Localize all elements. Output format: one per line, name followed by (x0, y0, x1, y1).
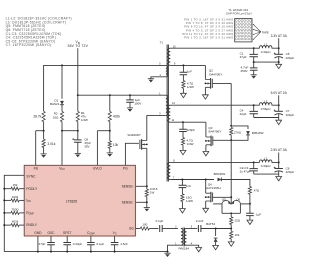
inductor L3 0.56&#181;H output filter 5V (240, 91, 295, 118)
resistor 28.7k (33, 111, 45, 130)
wire FB pin (35, 131, 37, 166)
ground (203, 208, 209, 212)
transistor Q6 FMMT718 (230, 198, 250, 214)
svg-text:1nF: 1nF (187, 69, 192, 73)
resistor 15&#937; 1/4W snubber (181, 194, 193, 209)
svg-text:FB: FB (34, 167, 38, 171)
resistor 750&#937; (3, 207, 24, 214)
wire UVLO pin (96, 131, 98, 166)
svg-text:100k: 100k (12, 195, 19, 199)
svg-text:C7: 16TPE220MI (SANYO): C7: 16TPE220MI (SANYO) (6, 43, 52, 47)
ground (276, 174, 282, 181)
wire secondary 2 output (pin 12) (170, 104, 253, 106)
svg-text:10k: 10k (235, 233, 240, 237)
wire Q1 source to sense resistor (146, 148, 148, 187)
ground (75, 153, 81, 157)
resistor R1 47k 1/4W (76, 95, 88, 131)
ground (41, 154, 47, 158)
diode B0540W parallel (231, 126, 263, 140)
svg-text:100V: 100V (134, 102, 141, 106)
svg-text:PA0184: PA0184 (178, 247, 189, 251)
transistor Q2 Si4470EY sync rectifier (205, 65, 223, 94)
svg-text:HAT2165H: HAT2165H (206, 186, 221, 190)
wire secondary 3 output (pin 8) (170, 161, 253, 163)
svg-text:3.3V AT 3A: 3.3V AT 3A (271, 34, 288, 38)
svg-text:B0540W: B0540W (252, 131, 264, 135)
wire SYNC to left bus (4, 175, 24, 251)
resistor 4.7&#937; 1/4W snubber (182, 81, 194, 94)
svg-text:47pF: 47pF (39, 242, 46, 246)
wire secondary 1 output (170, 47, 253, 49)
node UVLO (97, 130, 110, 132)
transistor Q4 HAT2165H sync rectifier (205, 180, 221, 209)
resistor 47&#937; buffer supply (248, 187, 260, 205)
svg-text:47µF: 47µF (240, 55, 247, 59)
svg-text:2x 47µF: 2x 47µF (240, 169, 251, 173)
svg-text:Si4470EY: Si4470EY (208, 130, 221, 134)
svg-text:0.33µH: 0.33µH (261, 50, 271, 54)
resistor 0.015 1W sense (145, 186, 158, 202)
transformer T1 winding notes (182, 17, 233, 39)
resistor 15k (3, 183, 24, 190)
ground (213, 245, 219, 249)
diode D1 BAS21 (50, 65, 64, 111)
svg-text:T1: T1 (160, 41, 164, 45)
svg-text:1/4W: 1/4W (81, 118, 88, 122)
wire T2 secondary return (187, 245, 199, 247)
svg-text:220µF: 220µF (286, 170, 295, 174)
ground (251, 75, 257, 79)
wire Q1 drain to T1 pin 3 (147, 116, 166, 141)
resistor 270&#937; (230, 127, 242, 141)
wire buffer emitter bracket (222, 197, 240, 214)
svg-text:47Ω: 47Ω (254, 188, 260, 192)
diode B0540W series (214, 172, 250, 186)
resistor 15&#937; buffer output (230, 214, 241, 229)
wire Q3 gate to bus (213, 139, 231, 141)
node VCC (61, 130, 79, 132)
svg-text:220pF: 220pF (187, 128, 196, 132)
capacitor 1nF snubber (180, 65, 193, 80)
ground (276, 62, 282, 69)
svg-text:B0540W: B0540W (214, 172, 226, 176)
svg-text:2.5V AT 3A: 2.5V AT 3A (271, 148, 288, 152)
wire VIN stub (77, 48, 79, 96)
transformer T1 bobbin diagram (235, 19, 252, 42)
capacitor 0.1&#181;F on CCMP (87, 236, 104, 253)
wire PG gate drive (125, 143, 138, 165)
svg-text:1µF: 1µF (256, 213, 261, 217)
svg-text:PIN 4 TO 5, 3T OF 2 X 27 AWG: PIN 4 TO 5, 3T OF 2 X 27 AWG (186, 28, 234, 32)
capacitor 47pF on OSC (39, 236, 55, 253)
ground (196, 248, 202, 252)
resistor 3.01k (42, 131, 56, 154)
transistor Q1 Si4490DY (127, 133, 147, 150)
capacitor 1&#181;F buffer (246, 204, 261, 220)
capacitor 220pF snubber (179, 122, 195, 137)
inductor L2 0.33&#181;H output filter 2.5V (240, 148, 295, 174)
svg-text:PIN 1 TO 3, 16T OF 3 X 31 AWG: PIN 1 TO 3, 16T OF 3 X 31 AWG (184, 36, 234, 40)
resistor 100 SG gate (136, 223, 159, 231)
svg-text:PGDLY: PGDLY (26, 187, 38, 191)
parts list note (6, 17, 72, 48)
svg-text:GND: GND (34, 231, 42, 235)
svg-text:Si4470EY: Si4470EY (209, 72, 222, 76)
svg-text:402k: 402k (12, 220, 19, 224)
resistor 10k UVLO (108, 131, 118, 153)
svg-text:250V: 250V (240, 69, 247, 73)
wire VCC pin (61, 131, 63, 166)
svg-text:15k: 15k (13, 183, 18, 187)
wire VIN rail (78, 94, 166, 96)
svg-text:1/4W: 1/4W (186, 199, 193, 203)
transformer T1 (159, 41, 176, 182)
wire bottom ground bus (4, 251, 167, 253)
ground (164, 253, 170, 257)
svg-text:35V: 35V (84, 144, 89, 148)
svg-text:UVLO: UVLO (93, 167, 102, 171)
wire GND pin (37, 236, 39, 253)
svg-text:Q5: Q5 (222, 198, 226, 202)
capacitor 1&#181;F 100V (126, 95, 141, 108)
wire secondary 3 lower (pin 7) (170, 179, 214, 181)
wire secondary 2 lower (pin 11) (170, 121, 206, 123)
svg-text:402k: 402k (113, 114, 120, 118)
node VIN 36V TO 72V (68, 40, 89, 48)
svg-text:SFST: SFST (63, 231, 71, 235)
svg-text:PG: PG (123, 167, 128, 171)
wire T2 primary return (167, 245, 181, 252)
svg-text:28.7k: 28.7k (33, 115, 41, 119)
resistor 402k (3, 220, 24, 227)
capacitor 1.5nF on VC (111, 236, 128, 253)
svg-text:0.33µH: 0.33µH (261, 164, 271, 168)
svg-text:36V TO 72V: 36V TO 72V (68, 44, 89, 48)
ground (247, 220, 253, 224)
svg-text:0.1µF: 0.1µF (97, 242, 105, 246)
svg-text:PIN 9 TO 10, 4T OF 3 X 26 AWG: PIN 9 TO 10, 4T OF 3 X 26 AWG (184, 25, 234, 29)
svg-text:1/4W: 1/4W (187, 85, 194, 89)
svg-text:LT3825: LT3825 (66, 199, 77, 203)
svg-text:0.56µH: 0.56µH (261, 107, 271, 111)
svg-text:TAPE: TAPE (262, 30, 269, 34)
ground (144, 202, 150, 211)
wire bias winding to D1 and divider (44, 64, 166, 111)
svg-text:1nF: 1nF (186, 184, 191, 188)
ground (276, 118, 282, 125)
svg-text:1/4W: 1/4W (187, 142, 194, 146)
resistor 402k (108, 95, 120, 131)
svg-text:220µF: 220µF (286, 113, 295, 117)
resistor 100k (3, 195, 24, 202)
svg-text:L2: L2 (264, 157, 268, 161)
svg-text:BAS21: BAS21 (50, 102, 60, 106)
ground (180, 209, 186, 213)
svg-text:5.0V AT 2A: 5.0V AT 2A (271, 91, 288, 95)
svg-text:L3: L3 (264, 99, 268, 103)
svg-text:10k: 10k (113, 143, 119, 147)
svg-text:GAP FOR Lp=27µH: GAP FOR Lp=27µH (226, 12, 252, 16)
svg-text:L1: L1 (264, 42, 268, 46)
svg-text:Q6: Q6 (236, 198, 240, 202)
ground (148, 79, 154, 83)
svg-text:15Ω: 15Ω (235, 219, 241, 223)
transistor Q3 Si4470EY sync rectifier (205, 122, 222, 151)
capacitor 0.1&#181;F coupling (156, 219, 178, 232)
op-amp U1 LT3825 controller (24, 165, 135, 236)
ground (203, 95, 209, 99)
svg-text:PIN 11 TO 12, 6T OF 3 X 26 AWG: PIN 11 TO 12, 6T OF 3 X 26 AWG (182, 32, 233, 36)
svg-text:Si4490DY: Si4490DY (127, 133, 141, 137)
capacitor C8 47&#181;F 35V (72, 131, 91, 154)
svg-text:100: 100 (142, 223, 147, 227)
wire gate drive bus (230, 83, 232, 127)
svg-text:270Ω: 270Ω (234, 131, 242, 135)
wire Q4 gate (213, 196, 232, 198)
transistor Q5 FMMT618 (213, 198, 231, 214)
inductor L1 0.33&#181;H output filter 3.3V (240, 34, 295, 63)
ground (203, 152, 209, 156)
svg-text:220µF: 220µF (286, 56, 295, 60)
wire T1 pin 4 bias return (151, 77, 166, 79)
resistor 4.7&#937; 1/4W snubber (181, 138, 193, 151)
ground (127, 108, 133, 112)
svg-text:ENDLY: ENDLY (26, 223, 37, 227)
wire SENSE+ pin (136, 185, 147, 187)
svg-text:BAT54: BAT54 (206, 222, 215, 226)
capacitor 0.33&#181;F on SFST (63, 236, 82, 253)
ground (228, 242, 234, 246)
resistor 10k pulldown (230, 229, 240, 242)
svg-text:0.1µF: 0.1µF (156, 219, 164, 223)
svg-text:SYNC: SYNC (26, 174, 36, 178)
wire gate bus lower (230, 140, 232, 198)
capacitor 1nF snubber (179, 180, 192, 194)
ground (107, 153, 113, 157)
svg-text:OSC: OSC (47, 231, 55, 235)
wire Q2 gate to bus (212, 82, 231, 84)
svg-text:2.2nF: 2.2nF (196, 219, 204, 223)
svg-text:PIN 1 TO 3, 16T OF 3 X 31 AWG: PIN 1 TO 3, 16T OF 3 X 31 AWG (184, 17, 234, 21)
svg-text:22µF: 22µF (240, 112, 247, 116)
capacitor 2.2nF coupling (187, 219, 233, 232)
svg-text:PIN 7 TO 8, 3T OF 3 X 26 AWG: PIN 7 TO 8, 3T OF 3 X 26 AWG (186, 21, 234, 25)
transformer T1 spec label (226, 8, 252, 15)
ground (180, 150, 186, 154)
ground (181, 93, 187, 97)
svg-text:3.01k: 3.01k (47, 142, 55, 146)
svg-text:0.33µF: 0.33µF (73, 242, 83, 246)
svg-text:750Ω: 750Ω (11, 207, 19, 211)
svg-text:1W: 1W (150, 190, 155, 194)
resistor R2 20&#937; (53, 111, 64, 130)
capacitor 4.7nF 250V Y-cap (240, 62, 257, 75)
transformer T2 PA0184 (175, 224, 193, 250)
label TAPE (253, 24, 269, 40)
diode BAT54 clamp (206, 222, 217, 245)
wire secondary 1 lower (pin 9) (170, 64, 205, 66)
svg-text:20Ω: 20Ω (53, 115, 59, 119)
node FB divider (36, 130, 45, 132)
svg-text:1.5nF: 1.5nF (120, 242, 128, 246)
svg-text:SG: SG (129, 227, 134, 231)
wire SENSE- pin (136, 201, 148, 203)
